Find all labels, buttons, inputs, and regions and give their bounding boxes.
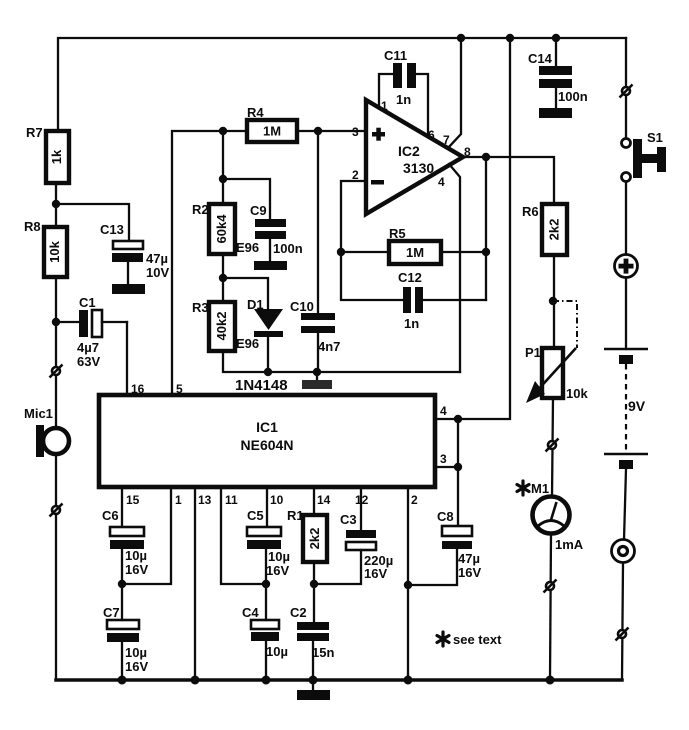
svg-text:R4: R4: [247, 105, 264, 120]
terminal 0 (battery minus): [612, 540, 635, 563]
svg-text:12: 12: [355, 493, 369, 507]
wire IC1 pin1: [122, 489, 171, 584]
svg-text:1M: 1M: [263, 124, 281, 139]
wire R4 right to IC2 pin3: [297, 130, 366, 132]
svg-text:R2: R2: [192, 202, 209, 217]
capacitor C11 1n: [379, 48, 428, 136]
svg-text:R7: R7: [26, 125, 43, 140]
node C6/C7 junction: [118, 580, 126, 588]
svg-text:1: 1: [381, 99, 388, 113]
svg-text:4n7: 4n7: [318, 339, 340, 354]
svg-text:C7: C7: [103, 605, 120, 620]
ground bar at bias net: [316, 372, 318, 380]
svg-text:R8: R8: [24, 219, 41, 234]
IC IC1 NE604N: [99, 395, 435, 487]
node R1/C2/C3 junction: [310, 580, 318, 588]
note see text: [437, 632, 502, 647]
wire output to R5/C12: [485, 157, 487, 300]
svg-text:63V: 63V: [77, 354, 100, 369]
node R5 left junction: [337, 248, 345, 256]
svg-text:9V: 9V: [628, 398, 646, 414]
potentiometer P1 10k: [525, 301, 588, 403]
capacitor C8 47u 16V: [408, 509, 481, 585]
svg-text:C8: C8: [437, 509, 454, 524]
ground bar under C14: [555, 88, 557, 108]
capacitor C10 4n7: [290, 131, 340, 372]
wire IC1 pin3 stub: [435, 466, 458, 468]
wire IC1 pin13: [194, 489, 196, 680]
capacitor C4 10u: [242, 584, 288, 680]
wire R6 to P1: [553, 255, 555, 348]
svg-text:NE604N: NE604N: [241, 437, 294, 453]
wire IC1 pin10: [266, 489, 268, 527]
node D1 bottom junction: [264, 368, 272, 376]
connector pin (bottom right): [616, 628, 629, 641]
svg-text:16V: 16V: [458, 565, 481, 580]
svg-text:10µ: 10µ: [125, 548, 147, 563]
svg-text:10µ: 10µ: [266, 644, 288, 659]
svg-text:R3: R3: [192, 300, 209, 315]
node pin4/C8 junction: [454, 415, 462, 423]
ground bar under C13: [127, 262, 129, 284]
svg-text:60k4: 60k4: [214, 214, 229, 244]
svg-text:10k: 10k: [47, 240, 62, 262]
connector pin (left, above mic): [50, 365, 63, 378]
wire C8 drop: [457, 419, 459, 526]
node pin2/rail junction: [404, 676, 413, 685]
svg-text:C13: C13: [100, 222, 124, 237]
node top rail junction (C14 drop): [552, 34, 560, 42]
svg-text:C11: C11: [384, 48, 407, 63]
capacitor C12 1n: [398, 270, 486, 331]
capacitor C1 4u7 63V: [56, 295, 127, 369]
wire P1 to M1: [552, 398, 553, 497]
svg-text:see text: see text: [453, 632, 502, 647]
svg-text:1M: 1M: [406, 245, 424, 260]
wire IC1 pin2: [407, 489, 409, 680]
svg-text:C5: C5: [247, 508, 264, 523]
svg-text:16V: 16V: [364, 566, 387, 581]
svg-text:C9: C9: [250, 203, 267, 218]
svg-text:C4: C4: [242, 605, 259, 620]
switch S1: [622, 130, 667, 182]
wire left column upper: [55, 131, 57, 425]
svg-text:47µ: 47µ: [146, 251, 168, 266]
node C1 branch junction: [52, 318, 60, 326]
svg-text:1: 1: [175, 493, 182, 507]
resistor R4 1M: [247, 105, 297, 142]
microphone Mic1: [24, 406, 69, 457]
node C4/rail junction: [262, 676, 271, 685]
svg-text:10µ: 10µ: [125, 645, 147, 660]
wire IC1 pin11: [221, 489, 266, 584]
wire M1 to rail: [550, 533, 551, 680]
svg-text:IC2: IC2: [398, 143, 420, 159]
wire IC1 pin5 / R4 left: [172, 131, 247, 395]
wire C13 branch: [56, 204, 129, 241]
svg-text:11: 11: [225, 493, 238, 507]
svg-text:C2: C2: [290, 605, 307, 620]
svg-text:C14: C14: [528, 51, 553, 66]
ground bar main: [312, 680, 314, 690]
svg-text:E96: E96: [236, 336, 259, 351]
resistor R1 2k2: [287, 508, 327, 584]
wire IC2 pin4 drop: [449, 164, 460, 372]
node M1/rail junction: [546, 676, 555, 685]
resistor R2 60k4: [192, 202, 259, 255]
connector pin (top right): [620, 85, 633, 98]
svg-text:1N4148: 1N4148: [235, 377, 288, 394]
svg-text:10k: 10k: [566, 386, 588, 401]
node top rail junction (IC2 pin7 drop): [457, 34, 465, 42]
capacitor C3 220u 16V: [314, 512, 393, 584]
svg-text:C1: C1: [79, 295, 96, 310]
svg-text:1n: 1n: [404, 316, 419, 331]
svg-text:1n: 1n: [396, 92, 411, 107]
wire rail to S1: [625, 38, 627, 139]
connector pin (below M1): [544, 580, 557, 593]
wire R2 column: [223, 131, 460, 372]
svg-text:10V: 10V: [146, 265, 169, 280]
node output junction: [482, 153, 490, 161]
node C5/C4 junction: [262, 580, 270, 588]
svg-text:3: 3: [352, 125, 359, 139]
wire IC1 pin16: [126, 322, 128, 395]
connector pin (above M1): [546, 439, 559, 452]
svg-text:2k2: 2k2: [307, 528, 322, 550]
ground bar under C9: [269, 239, 271, 261]
node top rail junction (IC1 pin4 drop): [506, 34, 514, 42]
node C2/rail junction: [309, 676, 318, 685]
node R6/P1 wiper junction: [549, 297, 557, 305]
svg-text:C3: C3: [340, 512, 357, 527]
svg-text:7: 7: [443, 133, 450, 147]
resistor R6 2k2: [522, 204, 567, 255]
node R4/R2 junction: [219, 127, 227, 135]
wire IC1 pin14: [313, 489, 315, 515]
capacitor C2 15n: [290, 584, 334, 680]
capacitor C7 10u 16V: [103, 585, 148, 680]
node pin2/C8 junction: [404, 581, 412, 589]
wire bottom ground rail: [56, 678, 622, 682]
wire IC2 pin7 to rail: [448, 38, 461, 148]
node pin13/rail junction: [191, 676, 200, 685]
svg-text:4: 4: [438, 175, 445, 189]
svg-text:C10: C10: [290, 299, 314, 314]
capacitor C14 100n: [528, 38, 588, 104]
svg-text:P1: P1: [525, 345, 541, 360]
battery 9V: [604, 349, 648, 469]
svg-text:13: 13: [198, 493, 212, 507]
svg-text:14: 14: [317, 493, 331, 507]
terminal + (battery plus): [615, 255, 638, 278]
wire 0 terminal to rail: [622, 563, 623, 680]
svg-text:16V: 16V: [125, 562, 148, 577]
svg-text:4: 4: [440, 404, 447, 418]
resistor R3 40k2: [192, 300, 259, 351]
wire top supply rail: [58, 38, 626, 131]
op-amp IC2 3130: [352, 99, 471, 214]
node R7/R8/C13 junction: [52, 200, 60, 208]
svg-text:4µ7: 4µ7: [77, 340, 99, 355]
wire S1 to + terminal: [625, 182, 627, 255]
svg-text:M1: M1: [531, 481, 549, 496]
node R2/C9 junction: [219, 175, 227, 183]
svg-text:15: 15: [126, 493, 140, 507]
resistor R5 1M: [341, 226, 486, 264]
svg-text:2: 2: [411, 493, 418, 507]
resistor R7 1k: [26, 125, 69, 183]
svg-text:C6: C6: [102, 508, 119, 523]
svg-text:C12: C12: [398, 270, 422, 285]
node C7/rail junction: [118, 676, 127, 685]
svg-text:47µ: 47µ: [458, 551, 480, 566]
meter M1 1mA: [517, 481, 584, 552]
capacitor C6 10u 16V: [102, 508, 148, 585]
connector pin (left, below mic): [50, 504, 63, 517]
svg-text:10: 10: [270, 493, 284, 507]
svg-text:3130: 3130: [403, 160, 434, 176]
svg-text:100n: 100n: [273, 241, 303, 256]
svg-text:E96: E96: [236, 240, 259, 255]
capacitor C5 10u 16V: [247, 508, 290, 584]
svg-text:S1: S1: [647, 130, 663, 145]
svg-text:10µ: 10µ: [268, 549, 290, 564]
wire IC1 pin12: [360, 489, 362, 530]
wire IC2 output pin8: [461, 157, 554, 204]
svg-text:IC1: IC1: [256, 419, 278, 435]
svg-text:R5: R5: [389, 226, 406, 241]
wire left column lower (mic to rail): [55, 456, 57, 680]
svg-text:1mA: 1mA: [555, 537, 584, 552]
wire battery to 0 terminal: [624, 469, 626, 540]
svg-text:3: 3: [440, 452, 447, 466]
svg-text:R6: R6: [522, 204, 539, 219]
wire + terminal to battery: [625, 278, 627, 349]
capacitor C9 100n: [223, 179, 303, 256]
svg-text:16V: 16V: [266, 563, 289, 578]
node R5 right junction: [482, 248, 490, 256]
svg-text:15n: 15n: [312, 645, 334, 660]
node C10 bottom junction: [313, 368, 321, 376]
wire IC2 pin2 loop: [341, 181, 403, 300]
capacitor C13 47u 10V: [100, 222, 169, 280]
wire rail to IC1 pin4: [437, 38, 510, 419]
svg-text:16V: 16V: [125, 659, 148, 674]
svg-text:40k2: 40k2: [214, 312, 229, 341]
svg-text:1k: 1k: [49, 149, 64, 164]
svg-text:2k2: 2k2: [547, 219, 562, 241]
wire IC1 pin15: [121, 489, 123, 527]
node R2/R3/D1 junction: [219, 274, 227, 282]
node pin3/C8 junction: [454, 463, 462, 471]
node C10 drop junction: [314, 127, 322, 135]
svg-text:Mic1: Mic1: [24, 406, 53, 421]
resistor R8 10k: [24, 219, 67, 277]
svg-text:100n: 100n: [558, 89, 588, 104]
diode D1 1N4148: [223, 278, 283, 372]
